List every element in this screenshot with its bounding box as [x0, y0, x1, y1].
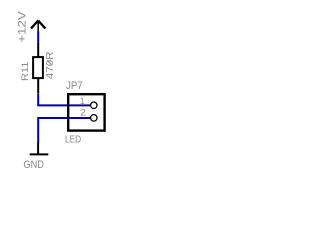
resistor R11 bottom lead	[37, 79, 39, 94]
svg-text:R11: R11	[20, 62, 31, 81]
svg-text:LED: LED	[65, 135, 81, 146]
svg-text:+12V: +12V	[17, 11, 29, 43]
value 470R zero slash	[47, 60, 51, 64]
power +12V arrow	[31, 21, 45, 32]
wire resistor to pin 1	[38, 94, 90, 106]
ground symbol	[30, 142, 49, 154]
wire pin 2 to GND	[38, 118, 90, 143]
svg-text:470R: 470R	[45, 52, 56, 80]
connector JP7 body	[68, 94, 104, 130]
pin 2 pad circle	[91, 115, 98, 122]
svg-text:2: 2	[80, 107, 86, 118]
resistor R11 body	[33, 57, 43, 78]
svg-text:GND: GND	[23, 159, 44, 171]
pin 1 pad circle	[91, 102, 98, 109]
svg-text:1: 1	[80, 95, 85, 106]
svg-text:JP7: JP7	[66, 80, 83, 92]
resistor R11 top lead	[37, 44, 39, 58]
wire +12V to resistor	[37, 32, 39, 45]
